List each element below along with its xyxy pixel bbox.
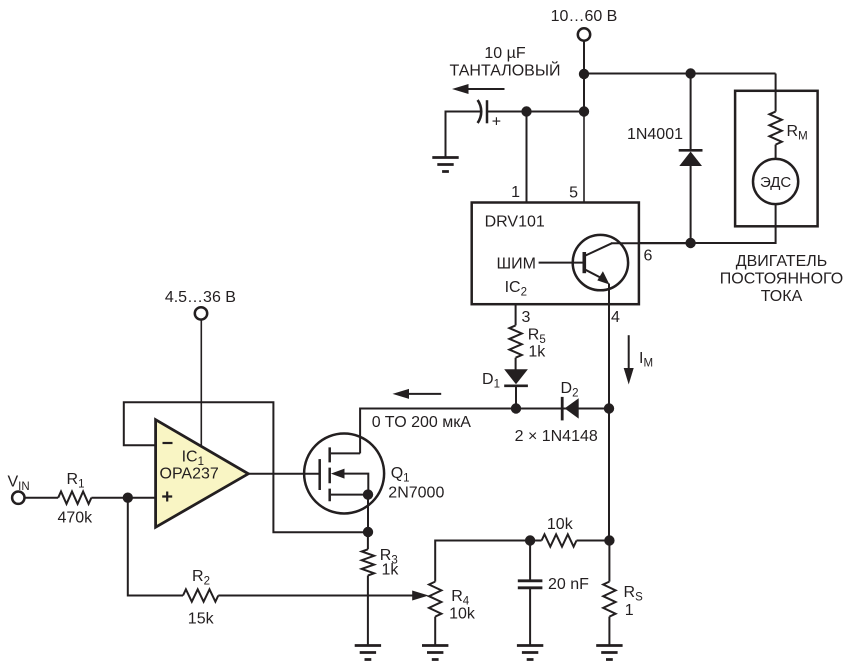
op-amp IC1 OPA237 [156, 420, 249, 528]
junction D1 anode row [511, 403, 521, 413]
wire source node down [367, 495, 369, 533]
wire EMF to box bottom [775, 204, 777, 226]
terminal supply 4.5...36 V [195, 307, 207, 319]
wire supply into motor box [775, 74, 777, 112]
IC2 DRV101 box [472, 203, 639, 305]
svg-text:ПОСТОЯННОГО: ПОСТОЯННОГО [720, 271, 843, 288]
diode 1N4001 flyback [679, 74, 703, 244]
svg-text:ЭДС: ЭДС [760, 174, 791, 191]
label motor caption [720, 253, 843, 305]
svg-text:15k: 15k [188, 611, 215, 628]
wire pin6 node to motor [639, 226, 776, 243]
transistor Q internal (output stage of DRV101) [539, 235, 629, 290]
svg-text:ШИМ: ШИМ [497, 256, 537, 273]
resistor R1 [58, 492, 91, 504]
junction source / feedback / R3 [363, 527, 373, 537]
junction 10k left / cap 20nF [525, 535, 535, 545]
resistor R3 [367, 532, 369, 549]
svg-text:5: 5 [569, 185, 578, 202]
junction supply / 1N4001 cathode [685, 68, 695, 78]
resistor RS sense [603, 582, 615, 617]
junction pin6 / 1N4001 anode [685, 238, 695, 248]
svg-text:10 µF: 10 µF [484, 45, 525, 62]
wire junction down to R2 [128, 498, 183, 596]
ground R3 [355, 646, 381, 660]
svg-text:1k: 1k [382, 562, 400, 579]
wire cap plus plate to junction [488, 111, 527, 113]
capacitor C1 10uF tantalum [478, 100, 502, 130]
wire pin 1 [526, 112, 528, 204]
ground R4 [422, 646, 448, 660]
wire R4 top to 10k row [435, 541, 530, 582]
svg-text:+: + [492, 113, 501, 130]
svg-text:1N4001: 1N4001 [627, 126, 683, 143]
wire R5 to D1 [515, 358, 517, 370]
svg-text:10k: 10k [547, 516, 574, 533]
svg-text:OPA237: OPA237 [160, 466, 219, 483]
arrow IM current [624, 335, 634, 384]
svg-text:1k: 1k [528, 344, 546, 361]
opamp minus input mark [163, 442, 173, 444]
wire pin 6 collector out [611, 242, 691, 244]
wire feedback loop [124, 402, 363, 532]
wire VIN to R1 [24, 497, 58, 499]
ground 20nF [517, 646, 543, 660]
wire pin 3 down to R5 [515, 304, 517, 325]
junction R1 / R2 [123, 493, 133, 503]
diode D1 [504, 369, 528, 408]
arrow current direction left above cap [452, 84, 505, 94]
resistor R2 [183, 589, 218, 601]
terminal VIN [12, 492, 24, 504]
wire pin 4 emitter down [608, 284, 610, 409]
wire cap to ground [446, 112, 481, 157]
transistor Q1 2N7000 MOSFET [304, 434, 384, 514]
svg-text:ТОКА: ТОКА [761, 288, 803, 305]
svg-text:4.5…36 В: 4.5…36 В [165, 289, 236, 306]
svg-text:6: 6 [644, 248, 653, 265]
wire R1 to plus input [91, 497, 155, 499]
opamp plus input mark [162, 492, 172, 502]
junction Q1 source/body [363, 489, 373, 499]
wire cap rail [527, 111, 585, 113]
junction pin5 rail / cap [579, 106, 589, 116]
wire R3 to ground [367, 576, 369, 646]
junction supply top [579, 69, 589, 79]
wire RS top to junction [608, 541, 610, 582]
svg-text:2 × 1N4148: 2 × 1N4148 [515, 428, 598, 445]
svg-text:4: 4 [611, 309, 620, 326]
resistor R5 [509, 325, 521, 357]
svg-text:470k: 470k [57, 510, 93, 527]
source EMF (EDS) circle [753, 159, 798, 204]
junction pin1 / cap [521, 106, 531, 116]
svg-text:0 TO 200 мкА: 0 TO 200 мкА [372, 414, 472, 431]
svg-text:1: 1 [625, 602, 634, 619]
svg-text:DRV101: DRV101 [485, 214, 545, 231]
motor box [735, 91, 818, 227]
svg-text:20 nF: 20 nF [548, 576, 589, 593]
wire RS to ground [608, 617, 610, 646]
wire main horizontal D1/D2 row [360, 409, 609, 454]
wire RM to EMF source [775, 145, 777, 159]
svg-text:ТАНТАЛОВЫЙ: ТАНТАЛОВЫЙ [449, 61, 560, 80]
wire R4 to ground [434, 617, 436, 646]
wire supply rail to motor branch [584, 73, 776, 75]
diode D2 [562, 397, 579, 421]
wire opamp V+ supply [200, 319, 202, 446]
wire pin 5 [583, 112, 585, 204]
svg-text:2N7000: 2N7000 [388, 485, 444, 502]
arrow current 0 TO 200 uA [393, 389, 442, 399]
potentiometer R4 [429, 582, 441, 617]
wire pin4 node down to sense row [608, 409, 610, 541]
svg-text:ДВИГАТЕЛЬ: ДВИГАТЕЛЬ [736, 253, 827, 270]
resistor 10k filter [530, 540, 542, 542]
capacitor 20nF [518, 541, 543, 646]
junction D2 / pin4 wire [604, 403, 614, 413]
resistor RM (motor winding) [769, 112, 781, 145]
svg-text:1: 1 [511, 184, 520, 201]
wire R2 to R4 wiper with arrow [218, 591, 428, 601]
ground RS [596, 646, 622, 660]
terminal supply 10...60 V [578, 28, 590, 40]
svg-text:3: 3 [522, 309, 531, 326]
junction 10k right / RS [604, 535, 614, 545]
wire supply terminal to junction [583, 41, 585, 112]
ground cap [432, 158, 458, 172]
svg-text:10…60 В: 10…60 В [551, 8, 618, 25]
svg-text:10k: 10k [449, 606, 476, 623]
wire opamp output to gate [248, 473, 319, 475]
